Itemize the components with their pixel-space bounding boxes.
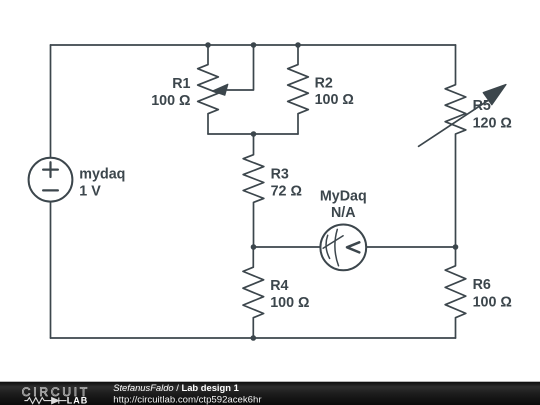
- svg-text:http://circuitlab.com/ctp592ac: http://circuitlab.com/ctp592acek6hr: [113, 395, 262, 405]
- node dot R3-R4-meter junction: [251, 244, 257, 250]
- label V1 mydaq: [79, 167, 125, 200]
- svg-text:100 Ω: 100 Ω: [151, 93, 190, 109]
- svg-text:R6: R6: [473, 277, 491, 293]
- svg-text:R1: R1: [172, 76, 190, 92]
- wire bottom rail: [51, 337, 456, 339]
- wire left rail upper: [50, 45, 52, 158]
- label R4: [270, 278, 309, 311]
- svg-text:StefanusFaldo / Lab design 1: StefanusFaldo / Lab design 1: [113, 382, 239, 393]
- svg-text:R5: R5: [473, 98, 491, 114]
- wire left rail lower: [50, 202, 52, 338]
- svg-text:R3: R3: [271, 166, 289, 182]
- voltmeter scale arc small: [326, 235, 330, 258]
- svg-text:N/A: N/A: [331, 205, 356, 221]
- footer bar: [0, 382, 540, 405]
- label R1: [151, 76, 190, 109]
- resistor R6: [445, 247, 466, 338]
- label voltmeter MyDaq: [320, 189, 367, 221]
- svg-text:72 Ω: 72 Ω: [271, 184, 302, 200]
- voltage source minus sign: [43, 189, 58, 191]
- resistor R4: [243, 247, 264, 338]
- resistor R5 (variable): [445, 45, 466, 247]
- resistor R1: [198, 45, 219, 134]
- wire meter left: [254, 246, 321, 248]
- wire R1-R2 bottom junction: [208, 133, 298, 135]
- node dot R1R2-R3 junction: [251, 131, 257, 137]
- label R6: [473, 277, 512, 310]
- wire R1 wiper: [227, 45, 254, 90]
- svg-text:100 Ω: 100 Ω: [315, 92, 354, 108]
- resistor R3: [243, 134, 264, 247]
- node dot top rail R1: [205, 42, 211, 48]
- label R2: [315, 76, 354, 109]
- label R3: [271, 166, 302, 199]
- wire top rail: [51, 44, 456, 46]
- svg-text:100 Ω: 100 Ω: [270, 295, 309, 311]
- R1 wiper arrowhead: [213, 84, 228, 95]
- node dot top rail R2: [295, 42, 301, 48]
- svg-text:MyDaq: MyDaq: [320, 189, 367, 205]
- resistor R2: [288, 45, 309, 134]
- voltage source plus sign: [43, 162, 58, 177]
- node dot R5-R6 junction: [453, 244, 459, 250]
- svg-text:mydaq: mydaq: [79, 167, 125, 183]
- node dot top rail wiper: [251, 42, 257, 48]
- svg-text:120 Ω: 120 Ω: [473, 116, 512, 132]
- voltmeter needle: [323, 236, 343, 248]
- svg-text:100 Ω: 100 Ω: [473, 294, 512, 310]
- node dot R4-bottom rail: [251, 335, 257, 341]
- footer logo resistor-diode glyph: [24, 398, 66, 404]
- voltmeter scale arc large: [335, 229, 339, 265]
- svg-text:R4: R4: [270, 278, 288, 294]
- svg-text:R2: R2: [315, 76, 333, 92]
- wire meter right: [366, 246, 455, 248]
- svg-text:LAB: LAB: [67, 396, 88, 405]
- label R5: [473, 98, 512, 132]
- voltmeter V chevron: [347, 242, 359, 252]
- svg-text:1 V: 1 V: [79, 183, 101, 199]
- voltage source V1 mydaq circle: [29, 158, 73, 202]
- R5 arrow shaft: [419, 100, 489, 146]
- R5 arrowhead: [483, 85, 506, 105]
- voltmeter U1 circle: [320, 225, 366, 271]
